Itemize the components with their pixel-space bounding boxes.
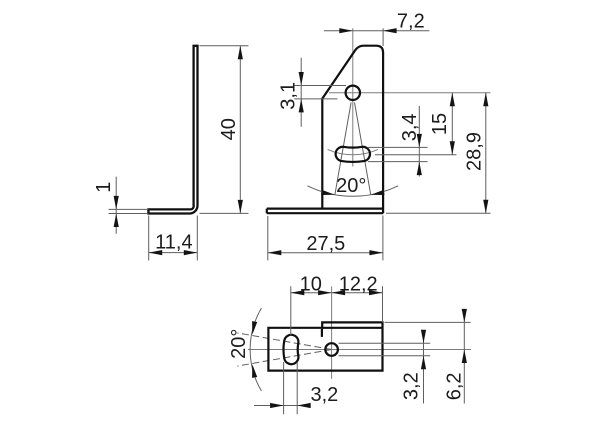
svg-text:20°: 20° <box>228 329 250 359</box>
dimension 15 <box>429 93 455 155</box>
dimension 3,2 slot width <box>254 362 338 414</box>
bottom view 20-degree arc <box>228 308 262 391</box>
dimension 40 (height) <box>200 46 249 214</box>
front view horizontal centerline through hole <box>329 92 491 94</box>
svg-text:28,9: 28,9 <box>464 132 486 171</box>
svg-text:3,4: 3,4 <box>399 113 421 141</box>
bottom view arc slot <box>283 335 298 364</box>
front view slot centerline arc <box>328 149 378 154</box>
svg-text:12,2: 12,2 <box>339 273 378 295</box>
dimensions 10 and 12,2 <box>291 273 383 335</box>
front view arc slot <box>336 147 370 162</box>
svg-text:10: 10 <box>300 273 322 295</box>
dimension 7,2 <box>324 11 429 46</box>
dimension 28,9 <box>386 93 491 214</box>
svg-text:20°: 20° <box>336 175 366 197</box>
bottom view outline <box>268 322 382 370</box>
dimension 1 (thickness) <box>93 177 148 234</box>
svg-text:3,2: 3,2 <box>310 384 338 406</box>
bottom view hole vertical centerline <box>331 286 333 379</box>
dimension 3,1 <box>278 58 346 127</box>
front view hole <box>346 86 360 100</box>
bottom view strip top extension line <box>385 321 471 323</box>
svg-text:6,2: 6,2 <box>443 372 465 400</box>
bottom view hole tangent extension lines <box>339 343 431 356</box>
svg-text:40: 40 <box>218 118 240 140</box>
bottom view hole <box>325 343 338 356</box>
svg-text:3,2: 3,2 <box>401 372 423 400</box>
dimension 6,2 <box>443 309 467 404</box>
svg-text:11,4: 11,4 <box>155 232 192 254</box>
svg-text:3,1: 3,1 <box>278 82 300 110</box>
svg-text:27,5: 27,5 <box>306 233 345 255</box>
bottom view dashed cone lines <box>237 333 331 366</box>
svg-text:15: 15 <box>429 113 451 135</box>
slot extension lines right <box>368 147 457 161</box>
front view vertical centerline <box>352 28 354 166</box>
dimension 3,4 <box>399 106 422 177</box>
dimension 11,4 (leg length) <box>149 216 198 261</box>
dimension 27,5 <box>268 216 383 261</box>
svg-text:1: 1 <box>93 182 115 193</box>
front view 20-degree arc <box>307 175 398 197</box>
front view 20-degree cone lines <box>335 103 371 195</box>
bottom view horizontal centerline <box>248 349 471 351</box>
bottom view bend stub <box>321 329 323 337</box>
dimension 3,2 hole diameter <box>401 330 426 404</box>
front view plate outline <box>322 46 383 214</box>
svg-text:7,2: 7,2 <box>397 11 425 33</box>
side view L-profile outline <box>148 46 197 214</box>
front view bottom flange <box>267 209 383 214</box>
